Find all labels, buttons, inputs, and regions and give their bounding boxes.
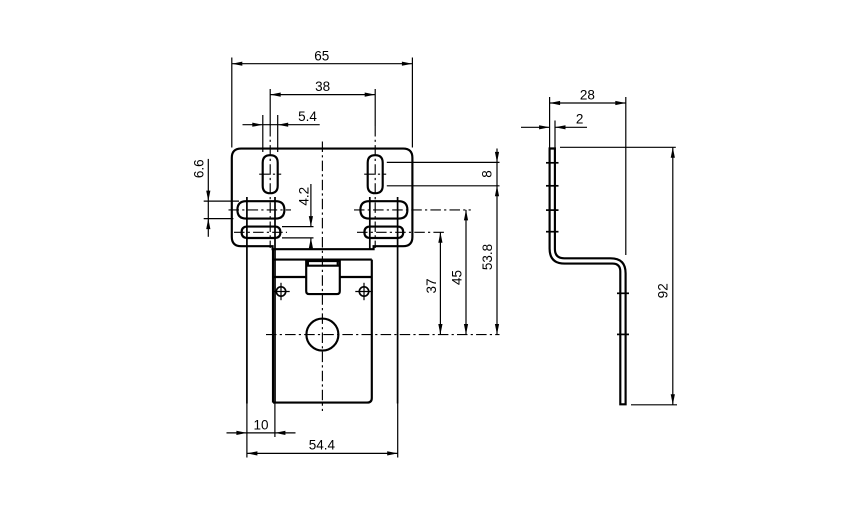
side wall tick 1 (546, 162, 559, 164)
left inner edge line (274, 197, 276, 403)
svg-text:92: 92 (655, 283, 670, 298)
top plate outline (232, 149, 413, 250)
right vertical slot (368, 155, 383, 193)
dimension 54.4 (247, 404, 398, 458)
left slot centerline (269, 89, 271, 248)
dimension 37 (424, 232, 443, 334)
side lower wall tick 1 (617, 292, 629, 294)
svg-text:53.8: 53.8 (480, 244, 495, 270)
right small horizontal slot (364, 227, 403, 238)
body step line (273, 259, 372, 261)
tab collar right tick (337, 261, 339, 266)
left small hole (272, 283, 289, 300)
right slot centerline (374, 89, 376, 248)
main vertical centerline (321, 142, 323, 412)
svg-text:6.6: 6.6 (191, 159, 206, 178)
large hole (306, 319, 338, 351)
dimension 65 (232, 49, 413, 148)
right slot cross line (364, 173, 386, 175)
svg-text:8: 8 (480, 170, 495, 178)
svg-text:37: 37 (424, 278, 439, 293)
side wall tick 3 (546, 209, 559, 211)
dimension 8 (387, 149, 500, 335)
tab collar line (306, 265, 340, 267)
svg-text:28: 28 (580, 88, 595, 103)
svg-text:54.4: 54.4 (309, 438, 336, 453)
left flap edge line (246, 197, 248, 404)
right large horizontal slot (360, 201, 407, 218)
dimension 45 (450, 210, 469, 335)
dimension 53.8 (480, 244, 499, 335)
dimension 5.4 (243, 109, 320, 152)
left large horizontal slot (237, 201, 284, 218)
right small slot centerline (357, 231, 446, 233)
side view profile (550, 149, 626, 405)
dimension 38 (270, 79, 375, 97)
center tab outline (306, 261, 340, 294)
left slot cross line (259, 173, 281, 175)
side lower wall tick 2 (617, 333, 629, 335)
svg-text:5.4: 5.4 (298, 109, 317, 124)
tab collar left tick (307, 261, 309, 266)
right large slot centerline (354, 209, 471, 211)
body inner line left (273, 276, 306, 278)
dimension 28 (550, 88, 626, 256)
left large slot centerline (229, 209, 292, 211)
left vertical slot (263, 155, 278, 193)
svg-text:10: 10 (253, 417, 268, 432)
dimension 10 (227, 404, 296, 438)
right inner edge line (369, 197, 371, 249)
hole horizontal centerline (266, 334, 500, 336)
left small slot centerline (234, 231, 287, 233)
dimension 4.2 (282, 184, 314, 249)
body inner line right (340, 276, 372, 278)
lower body left edge (272, 249, 274, 402)
dimension 92 (560, 147, 677, 405)
lower body right edge and bottom (273, 260, 372, 403)
svg-text:2: 2 (576, 112, 584, 127)
dimension 2 (521, 112, 587, 148)
svg-text:4.2: 4.2 (296, 187, 311, 206)
right small hole (355, 283, 372, 300)
side wall tick 4 (546, 231, 559, 233)
right flap edge line (397, 197, 399, 404)
dimension 6.6 (191, 159, 239, 237)
svg-text:45: 45 (450, 270, 465, 285)
left small horizontal slot (242, 227, 281, 238)
svg-text:65: 65 (314, 49, 329, 64)
svg-text:38: 38 (315, 79, 330, 94)
side wall tick 2 (546, 185, 559, 187)
